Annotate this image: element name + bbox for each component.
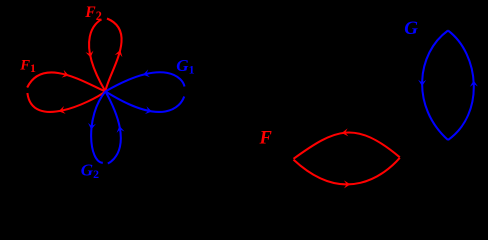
- arrow on G1 top (toward center): [143, 69, 150, 77]
- arrow on F2 left (toward center): [86, 51, 94, 58]
- petal F2 right side (wire): [105, 19, 121, 92]
- arrow on F2 right (outward): [115, 50, 123, 57]
- arrow on F1 bottom (outward): [59, 106, 66, 114]
- petal F2 left side (wire): [89, 20, 105, 92]
- arrow on G2 left (outward): [88, 123, 96, 130]
- arrow on G1 bottom (outward): [145, 106, 152, 114]
- arrow on F top arc (westward): [342, 128, 349, 136]
- bigon F top arc (wire): [294, 132, 400, 158]
- arrow on G left arc (downward): [418, 80, 426, 86]
- petal G2 left side (wire): [91, 91, 105, 162]
- arrow on F1 top (toward center): [62, 70, 69, 78]
- arrow on F bottom arc (eastward): [344, 180, 350, 188]
- bigon G right arc (wire): [448, 31, 474, 141]
- petal G1 top side (wire): [105, 72, 184, 91]
- bigon G left arc (wire): [422, 31, 448, 141]
- petal F1 bottom side (wire): [27, 91, 105, 112]
- arrow on G right arc (upward): [470, 80, 478, 87]
- bigon F bottom arc (wire): [294, 158, 400, 185]
- svg-text:F: F: [259, 129, 273, 149]
- petal F1 top side (wire): [27, 72, 105, 91]
- arrow on G2 right (toward center): [117, 126, 125, 133]
- petal G2 right side (wire): [105, 91, 120, 163]
- svg-text:G: G: [404, 18, 418, 39]
- svg-text:F1: F1: [19, 57, 36, 75]
- petal G1 bottom side (wire): [105, 91, 184, 112]
